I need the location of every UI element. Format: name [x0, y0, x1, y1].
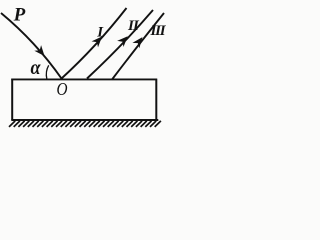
angle arc — [46, 65, 48, 79]
reflected ray II — [87, 10, 153, 79]
incident ray P->O — [1, 13, 62, 79]
block right edge — [155, 79, 157, 120]
reflected ray III — [112, 13, 164, 80]
svg-text:α: α — [31, 57, 42, 79]
block bottom edge / ground line — [11, 119, 158, 121]
arrowhead ray I — [93, 37, 101, 46]
svg-text:I: I — [96, 24, 104, 40]
ground hatching — [9, 121, 161, 127]
block (mirror slab) top surface — [11, 78, 157, 80]
arrowhead ray III — [134, 38, 142, 47]
arrowhead on incident ray — [36, 47, 44, 56]
arrowhead ray II — [119, 37, 127, 46]
svg-text:O: O — [57, 79, 68, 99]
svg-text:III: III — [150, 23, 167, 39]
svg-text:P: P — [13, 5, 26, 26]
reflected ray I — [62, 8, 127, 79]
block left edge — [11, 79, 13, 120]
